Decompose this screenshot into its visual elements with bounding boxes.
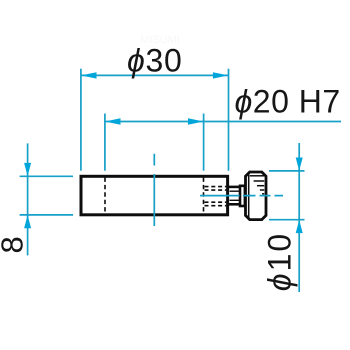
threaded stud bottom edge bbox=[229, 203, 241, 206]
svg-text:MISUMI: MISUMI bbox=[140, 34, 180, 46]
body cylinder outline bbox=[81, 176, 228, 215]
dim phi30 arrow left bbox=[81, 72, 97, 78]
dim phi30 extension line left bbox=[80, 69, 82, 171]
svg-text:ϕ10: ϕ10 bbox=[262, 232, 298, 291]
dim phi10 extension line bottom bbox=[269, 219, 305, 221]
dim 8 arrow top bbox=[24, 163, 31, 176]
hidden hole depth dashed line left bbox=[104, 178, 106, 214]
hidden thread line top outer bbox=[205, 186, 227, 188]
dim phi10 arrow top bbox=[296, 158, 303, 171]
stud thread crest top bbox=[230, 190, 240, 192]
dim phi30 arrow right bbox=[213, 72, 229, 78]
hidden thread line bottom inner bbox=[205, 201, 227, 203]
dim phi20 dimension and leader line bbox=[105, 121, 341, 123]
horizontal centerline bbox=[200, 195, 283, 197]
svg-text:ϕ20 H7: ϕ20 H7 bbox=[235, 84, 341, 120]
hidden thread line bottom outer bbox=[205, 205, 227, 207]
dim 8 dimension line bbox=[27, 143, 29, 255]
dim 8 extension line top bbox=[20, 175, 73, 177]
dim phi10 extension line top bbox=[269, 170, 305, 172]
knurl shading line 4 bbox=[260, 189, 264, 191]
dim phi10 arrow bottom bbox=[296, 220, 303, 233]
hidden thread line top inner bbox=[205, 189, 227, 191]
dim phi20 arrow right bbox=[188, 118, 204, 124]
stud thread crest bottom bbox=[230, 199, 240, 201]
flange washer bbox=[240, 186, 245, 206]
knurl shading line 3 bbox=[257, 185, 264, 187]
threaded stud top edge bbox=[229, 186, 241, 189]
knob chamfer inner line bbox=[248, 174, 250, 219]
knurl shading line 2 bbox=[254, 180, 265, 182]
dim phi30 extension line right bbox=[228, 69, 230, 171]
svg-text:8: 8 bbox=[0, 236, 30, 253]
vertical centerline bbox=[153, 154, 155, 226]
dim 8 arrow bottom bbox=[24, 215, 31, 228]
dim 8 extension line bottom bbox=[20, 214, 73, 216]
svg-text:ϕ30: ϕ30 bbox=[127, 43, 183, 79]
hidden hole depth dashed line right bbox=[203, 178, 205, 214]
dim phi20 extension line right bbox=[203, 114, 205, 171]
knurled knob outline bbox=[246, 172, 267, 220]
knurl shading line 5 bbox=[262, 193, 264, 195]
knurl shading line 1 bbox=[250, 175, 264, 177]
dim phi30 dimension line bbox=[81, 74, 229, 76]
dim phi20 arrow left bbox=[105, 118, 121, 124]
dim phi10 dimension line bbox=[298, 143, 300, 292]
dim phi20 extension line left bbox=[104, 114, 106, 171]
